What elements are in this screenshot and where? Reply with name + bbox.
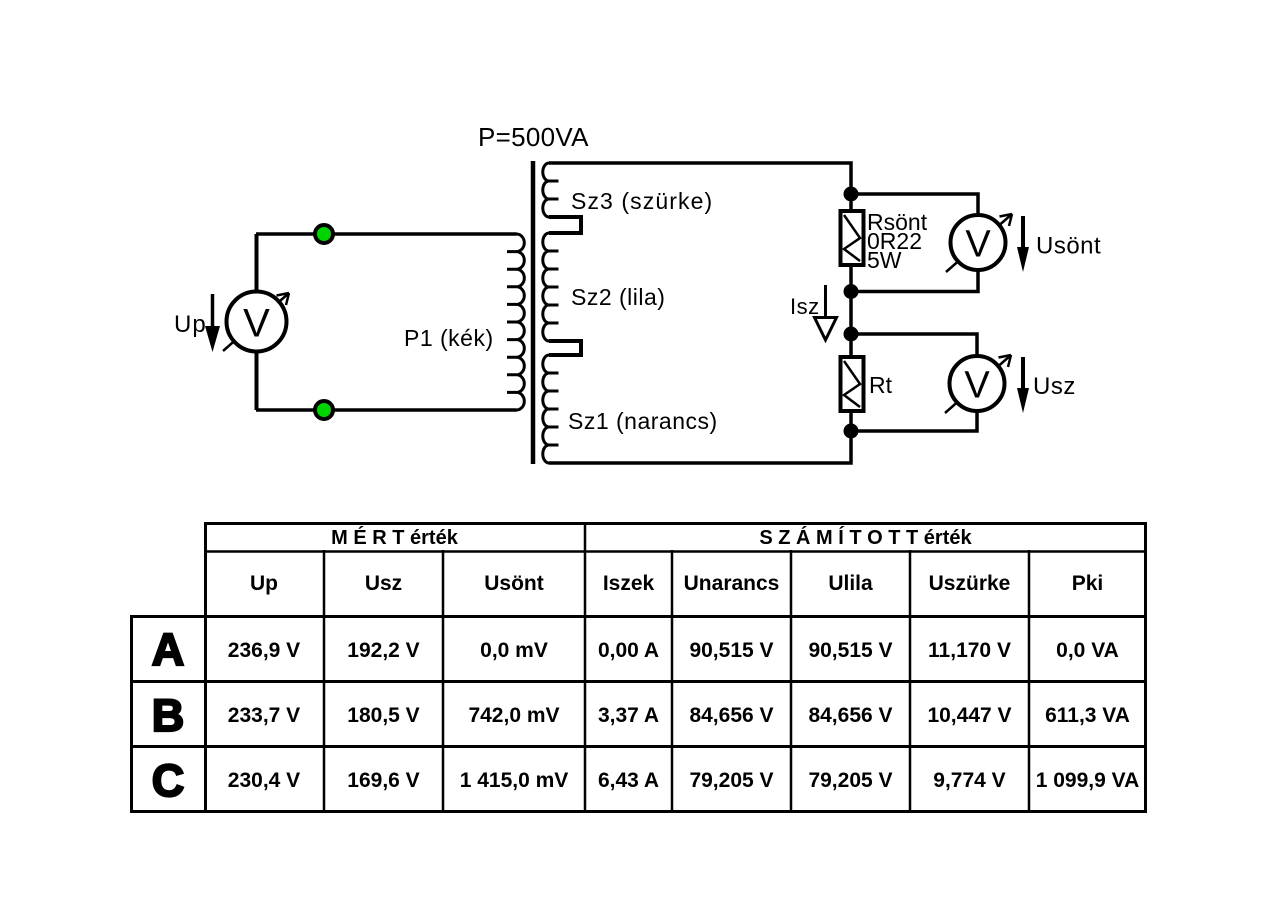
- svg-text:A: A: [152, 624, 185, 675]
- svg-text:236,9 V: 236,9 V: [228, 639, 300, 662]
- transformer core: [531, 161, 536, 464]
- svg-text:Sz3 (szürke): Sz3 (szürke): [571, 188, 713, 214]
- svg-text:169,6 V: 169,6 V: [347, 769, 419, 792]
- svg-text:1 099,9 VA: 1 099,9 VA: [1036, 769, 1140, 792]
- wire left vertical: [255, 234, 259, 410]
- svg-text:6,43 A: 6,43 A: [598, 769, 659, 792]
- svg-text:Usönt: Usönt: [1036, 233, 1101, 260]
- svg-text:Uszürke: Uszürke: [929, 572, 1011, 595]
- svg-text:Unarancs: Unarancs: [684, 572, 780, 595]
- resistor Rsönt: [841, 211, 864, 265]
- svg-text:90,515 V: 90,515 V: [689, 639, 773, 662]
- voltmeter V2 (Usönt meter): [946, 214, 1012, 272]
- svg-text:Iszek: Iszek: [603, 572, 655, 595]
- svg-text:0,00 A: 0,00 A: [598, 639, 659, 662]
- svg-text:84,656 V: 84,656 V: [808, 704, 892, 727]
- svg-text:192,2 V: 192,2 V: [347, 639, 419, 662]
- wire to Usönt meter top: [851, 194, 978, 215]
- svg-text:V: V: [964, 365, 990, 407]
- svg-text:C: C: [152, 755, 185, 806]
- tap between Sz3 and Sz2: [549, 217, 581, 233]
- svg-text:Pki: Pki: [1072, 572, 1104, 595]
- svg-text:0,0 VA: 0,0 VA: [1056, 639, 1119, 662]
- wire to Usz meter bottom: [851, 410, 977, 431]
- svg-text:V: V: [243, 302, 270, 346]
- svg-text:B: B: [152, 690, 185, 741]
- wire primary bottom: [256, 408, 517, 412]
- svg-text:742,0 mV: 742,0 mV: [468, 704, 559, 727]
- svg-text:P1 (kék): P1 (kék): [404, 325, 494, 351]
- svg-text:P=500VA: P=500VA: [478, 122, 589, 152]
- wire primary top: [256, 232, 517, 236]
- junction node above Rt: [844, 327, 859, 342]
- table data row A: [228, 639, 1119, 662]
- svg-text:Usz: Usz: [365, 572, 402, 595]
- arrow Isz (current direction): [815, 285, 837, 340]
- wire to Usönt meter bottom: [851, 269, 978, 292]
- svg-text:84,656 V: 84,656 V: [689, 704, 773, 727]
- resistor Rt: [841, 357, 864, 411]
- table column headers: [250, 572, 1103, 595]
- junction node below Rsönt: [844, 284, 859, 299]
- svg-text:M É R T érték: M É R T érték: [331, 526, 459, 549]
- svg-text:1 415,0 mV: 1 415,0 mV: [460, 769, 569, 792]
- svg-text:3,37 A: 3,37 A: [598, 704, 659, 727]
- svg-text:Up: Up: [174, 311, 207, 338]
- winding Sz2 secondary coil: [543, 233, 549, 341]
- arrow Up (voltage direction): [205, 294, 220, 352]
- table row labels A B C: [152, 624, 185, 806]
- winding P1 primary coil: [517, 234, 525, 410]
- svg-text:233,7 V: 233,7 V: [228, 704, 300, 727]
- svg-text:180,5 V: 180,5 V: [347, 704, 419, 727]
- svg-text:9,774 V: 9,774 V: [933, 769, 1005, 792]
- winding Sz3 secondary coil: [543, 163, 549, 217]
- wire secondary top to right rail: [549, 163, 851, 463]
- voltmeter V1 (Up meter): [223, 292, 289, 352]
- node terminal bottom (green): [315, 401, 333, 419]
- wire to Usz meter top: [851, 334, 977, 356]
- junction node top: [844, 187, 859, 202]
- svg-text:10,447 V: 10,447 V: [927, 704, 1011, 727]
- voltmeter V3 (Usz meter): [945, 355, 1011, 413]
- svg-text:Usz: Usz: [1033, 373, 1076, 400]
- winding Sz1 secondary coil: [543, 355, 549, 463]
- svg-text:611,3 VA: 611,3 VA: [1045, 704, 1130, 727]
- svg-text:S Z Á M Í T O T T érték: S Z Á M Í T O T T érték: [759, 526, 972, 549]
- measurement table grid: [130, 522, 1146, 813]
- svg-text:Isz: Isz: [790, 294, 820, 319]
- junction node bottom: [844, 424, 859, 439]
- svg-text:Up: Up: [250, 572, 278, 595]
- svg-text:79,205 V: 79,205 V: [808, 769, 892, 792]
- svg-text:Sz2 (lila): Sz2 (lila): [571, 284, 665, 310]
- svg-text:5W: 5W: [867, 247, 902, 273]
- svg-text:Usönt: Usönt: [484, 572, 544, 595]
- svg-text:230,4 V: 230,4 V: [228, 769, 300, 792]
- svg-text:V: V: [965, 224, 991, 266]
- table data row B: [228, 704, 1130, 727]
- arrow Usz direction: [1017, 357, 1029, 413]
- arrow Usönt direction: [1017, 216, 1029, 272]
- svg-text:90,515 V: 90,515 V: [808, 639, 892, 662]
- svg-text:Rt: Rt: [869, 372, 893, 398]
- node terminal top (green): [315, 225, 333, 243]
- svg-text:0,0 mV: 0,0 mV: [480, 639, 548, 662]
- svg-text:Sz1 (narancs): Sz1 (narancs): [568, 408, 718, 434]
- svg-text:Ulila: Ulila: [828, 572, 873, 595]
- svg-text:11,170 V: 11,170 V: [928, 639, 1011, 662]
- table data row C: [228, 769, 1139, 792]
- svg-text:79,205 V: 79,205 V: [689, 769, 773, 792]
- tap between Sz2 and Sz1: [549, 341, 581, 355]
